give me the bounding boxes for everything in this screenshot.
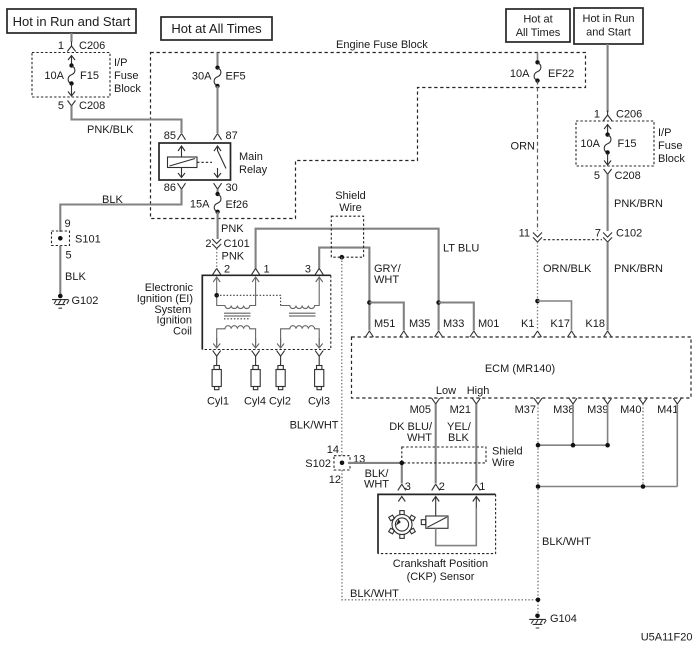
wire ORN/BLK from C102 to ECM pin K1 bbox=[538, 242, 592, 331]
I/P fuse block dashed box (right) bbox=[576, 121, 685, 166]
fuse EF22 (10A) bbox=[510, 53, 574, 83]
wire ORN from EF22 to C102 pin 11 bbox=[511, 81, 538, 231]
svg-text:PNK/BRN: PNK/BRN bbox=[614, 198, 663, 210]
svg-text:3: 3 bbox=[405, 481, 411, 493]
wire PNK/BLK from C208 to relay pin 85 bbox=[72, 106, 182, 136]
svg-text:1: 1 bbox=[479, 481, 485, 493]
wire branch to ECM pin K17 bbox=[535, 299, 540, 304]
svg-text:ECM (MR140): ECM (MR140) bbox=[485, 363, 555, 375]
relay pin 85 fork bbox=[164, 130, 186, 142]
svg-text:10A: 10A bbox=[510, 68, 530, 80]
ECM pin M51 bbox=[365, 318, 395, 337]
svg-text:M33: M33 bbox=[443, 318, 464, 330]
wire from M41 to junction bbox=[676, 404, 678, 487]
svg-text:Wire: Wire bbox=[339, 202, 362, 214]
svg-text:Hot at All Times: Hot at All Times bbox=[171, 21, 262, 36]
connector C101 bbox=[205, 238, 249, 250]
svg-text:30: 30 bbox=[226, 182, 238, 194]
CKP pickup sensor element bbox=[421, 508, 476, 546]
svg-text:EF5: EF5 bbox=[226, 71, 246, 83]
svg-text:BLK: BLK bbox=[65, 271, 86, 283]
I/P fuse block dashed box (left) bbox=[32, 53, 141, 98]
svg-text:Shield: Shield bbox=[492, 446, 523, 458]
svg-text:Coil: Coil bbox=[173, 326, 192, 338]
svg-text:12: 12 bbox=[329, 474, 341, 486]
spark plug Cyl3 bbox=[308, 351, 330, 408]
header box: Hot in Run and Start (right) bbox=[574, 8, 643, 44]
svg-text:M37: M37 bbox=[515, 404, 536, 416]
svg-text:C101: C101 bbox=[224, 238, 250, 250]
svg-text:Low: Low bbox=[436, 385, 456, 397]
splice S102 bbox=[305, 444, 365, 486]
wire PNK from Ef26 to C101 bbox=[218, 212, 245, 239]
svg-text:M05: M05 bbox=[410, 404, 431, 416]
ECM pin M05 bbox=[410, 398, 440, 416]
wire GRY/WHT from coil pin 3 to ECM pins M51 / M35 bbox=[319, 248, 401, 331]
svg-text:15A: 15A bbox=[190, 199, 210, 211]
fuse Ef26 (15A) bbox=[190, 192, 248, 214]
svg-text:BLK/WHT: BLK/WHT bbox=[290, 420, 339, 432]
junction run M37-M41 bbox=[536, 484, 678, 489]
CKP sensor box bbox=[378, 494, 496, 583]
junction at ground drop bbox=[536, 598, 541, 603]
CKP pin 1 fork bbox=[472, 481, 485, 493]
coil primary winding (left transformer) bbox=[217, 292, 256, 309]
relay pin 86 fork bbox=[164, 182, 186, 194]
wire EF5 feed from fuse block top bbox=[216, 53, 218, 66]
svg-text:M40: M40 bbox=[620, 404, 641, 416]
svg-text:(CKP) Sensor: (CKP) Sensor bbox=[407, 571, 475, 583]
ECM pin M01 bbox=[470, 318, 500, 337]
ground G102 bbox=[52, 294, 98, 309]
svg-text:M41: M41 bbox=[657, 404, 678, 416]
connector C208 (left) bbox=[58, 100, 105, 112]
svg-text:5: 5 bbox=[594, 170, 600, 182]
svg-text:S101: S101 bbox=[75, 234, 101, 246]
svg-text:PNK/BLK: PNK/BLK bbox=[87, 124, 134, 136]
header box: Hot in Run and Start (left) bbox=[7, 9, 136, 33]
svg-text:C206: C206 bbox=[79, 40, 105, 52]
shield drain junction bbox=[340, 255, 345, 260]
svg-text:BLK/WHT: BLK/WHT bbox=[542, 536, 591, 548]
wire from M38 to junction bbox=[572, 404, 574, 445]
header box: Hot at All Times (left) bbox=[161, 17, 272, 40]
junction run M37-M39 bbox=[536, 443, 610, 448]
svg-text:2: 2 bbox=[205, 238, 211, 250]
wire DK BLU/WHT from M05 to CKP pin 2 bbox=[389, 404, 435, 484]
spark plug Cyl2 bbox=[269, 351, 291, 408]
wire PNK/BRN from C102 to ECM pin K18 bbox=[608, 242, 663, 331]
svg-text:G102: G102 bbox=[72, 295, 99, 307]
svg-text:Hot in Run: Hot in Run bbox=[583, 13, 635, 25]
fuse F15 (right, 10A) bbox=[580, 125, 636, 166]
svg-text:C102: C102 bbox=[616, 228, 642, 240]
connector C208 (right) bbox=[594, 169, 641, 182]
svg-text:BLK: BLK bbox=[448, 432, 469, 444]
coil core (right) bbox=[289, 313, 316, 316]
ECM pin M21 bbox=[450, 398, 481, 416]
wire YEL/BLK from M21 to CKP pin 1 bbox=[447, 404, 476, 484]
ECM pin K18 bbox=[585, 318, 611, 337]
coil pin 1 fork bbox=[252, 264, 270, 276]
svg-text:BLK/WHT: BLK/WHT bbox=[350, 588, 399, 600]
svg-text:Crankshaft Position: Crankshaft Position bbox=[393, 558, 488, 570]
CKP reluctor gear bbox=[389, 511, 416, 539]
svg-text:5: 5 bbox=[66, 250, 72, 262]
wire from EF5 to relay pin 87 bbox=[216, 86, 218, 133]
svg-text:EF22: EF22 bbox=[548, 68, 574, 80]
shield wire dashed box (at coil) bbox=[331, 190, 365, 257]
svg-text:Hot in Run and Start: Hot in Run and Start bbox=[13, 14, 131, 29]
svg-text:C206: C206 bbox=[616, 109, 642, 121]
svg-text:High: High bbox=[467, 385, 490, 397]
svg-text:Relay: Relay bbox=[239, 164, 268, 176]
wire BLK/WHT from S102 to CKP pin 3 bbox=[348, 461, 404, 491]
coil internal arrows (bottom outputs) bbox=[213, 338, 220, 348]
svg-text:and Start: and Start bbox=[586, 27, 631, 39]
svg-text:WHT: WHT bbox=[407, 432, 432, 444]
ECM pin M35 bbox=[400, 318, 431, 337]
ECM pin M37 bbox=[515, 398, 542, 416]
svg-text:11: 11 bbox=[519, 228, 530, 240]
svg-text:Block: Block bbox=[114, 83, 141, 95]
svg-text:10A: 10A bbox=[580, 138, 600, 150]
ECM pin M39 bbox=[587, 398, 612, 416]
ECM pin M38 bbox=[553, 398, 577, 416]
svg-text:M39: M39 bbox=[587, 404, 608, 416]
svg-text:Ef26: Ef26 bbox=[226, 199, 249, 211]
CKP pin 2 fork bbox=[432, 481, 445, 493]
shield wire dashed box (at CKP) bbox=[402, 446, 523, 470]
svg-text:1: 1 bbox=[58, 40, 64, 52]
ECM box (MR140) bbox=[352, 337, 692, 398]
fuse EF5 (30A) bbox=[192, 65, 246, 88]
wire BLK/WHT from S102 to G104 bbox=[342, 470, 536, 600]
svg-text:1: 1 bbox=[594, 109, 600, 121]
svg-text:86: 86 bbox=[164, 182, 176, 194]
CKP pin 3 fork bbox=[398, 481, 411, 493]
svg-text:M51: M51 bbox=[374, 318, 395, 330]
svg-text:PNK: PNK bbox=[222, 251, 245, 263]
svg-text:M35: M35 bbox=[409, 318, 430, 330]
svg-text:K18: K18 bbox=[585, 318, 605, 330]
wire BLK from S101 to G102 bbox=[60, 246, 86, 296]
svg-text:Wire: Wire bbox=[492, 457, 515, 469]
coil secondary winding (right transformer) bbox=[281, 326, 320, 345]
ECM pin M41 bbox=[657, 398, 681, 416]
svg-text:PNK: PNK bbox=[221, 223, 244, 235]
wire from right header box to C206 bbox=[607, 44, 609, 112]
svg-text:7: 7 bbox=[595, 228, 601, 240]
fuse F15 (left, 10A) bbox=[44, 56, 99, 97]
wire BLK/WHT from M37 shield drain to ground run bbox=[537, 404, 539, 615]
svg-text:WHT: WHT bbox=[364, 479, 389, 491]
svg-text:M01: M01 bbox=[478, 318, 499, 330]
svg-text:All Times: All Times bbox=[516, 27, 561, 39]
svg-text:Engine Fuse Block: Engine Fuse Block bbox=[336, 39, 428, 51]
svg-text:C208: C208 bbox=[79, 100, 105, 112]
connector C102 dashed link bbox=[544, 239, 603, 241]
svg-text:Main: Main bbox=[239, 151, 263, 163]
ECM pin M40 bbox=[620, 398, 647, 416]
ECM pin K1 bbox=[521, 318, 541, 337]
svg-text:Fuse: Fuse bbox=[114, 70, 138, 82]
spark plug Cyl4 bbox=[244, 351, 266, 408]
svg-text:Shield: Shield bbox=[335, 190, 366, 202]
svg-text:C208: C208 bbox=[615, 170, 641, 182]
svg-text:LT BLU: LT BLU bbox=[443, 243, 479, 255]
electronic ignition coil box bbox=[137, 275, 331, 349]
svg-text:85: 85 bbox=[164, 130, 176, 142]
ground G104 bbox=[529, 613, 577, 628]
svg-text:87: 87 bbox=[226, 130, 238, 142]
coil pin 2 fork bbox=[213, 264, 230, 276]
wire BLK from relay pin 86 to S101 bbox=[60, 189, 181, 232]
svg-text:M38: M38 bbox=[553, 404, 574, 416]
svg-text:30A: 30A bbox=[192, 71, 212, 83]
svg-text:10A: 10A bbox=[44, 70, 64, 82]
ECM pin K17 bbox=[550, 318, 575, 337]
connector C206 (left) bbox=[58, 40, 105, 52]
coil internal arrows (top pins) bbox=[213, 277, 220, 292]
connector C102 pin 11 bbox=[519, 228, 542, 243]
svg-text:Cyl2: Cyl2 bbox=[269, 396, 291, 408]
coil jumper (dotted) to right primary bbox=[214, 293, 219, 298]
coil secondary winding (left transformer) bbox=[217, 326, 256, 345]
wire LT BLU from coil pin 1 to ECM pins M33 / M01 bbox=[256, 229, 480, 331]
svg-text:3: 3 bbox=[305, 264, 311, 276]
svg-text:9: 9 bbox=[65, 218, 71, 230]
svg-text:F15: F15 bbox=[618, 138, 637, 150]
coil core (left) bbox=[224, 313, 251, 316]
ECM pin M33 bbox=[435, 318, 465, 337]
engine fuse block dashed outline bbox=[151, 39, 586, 219]
svg-text:2: 2 bbox=[224, 264, 230, 276]
svg-text:I/P: I/P bbox=[658, 127, 671, 139]
svg-text:I/P: I/P bbox=[114, 57, 127, 69]
shield drain wire BLK/WHT down to S102 bbox=[290, 257, 342, 455]
svg-text:BLK: BLK bbox=[102, 194, 123, 206]
svg-text:PNK/BRN: PNK/BRN bbox=[614, 263, 663, 275]
relay pin 30 fork bbox=[214, 182, 238, 194]
spark plug Cyl1 bbox=[207, 351, 229, 408]
svg-text:G104: G104 bbox=[550, 613, 577, 625]
relay pin 87 fork bbox=[214, 130, 238, 142]
svg-text:K1: K1 bbox=[521, 318, 534, 330]
splice S101 bbox=[52, 218, 101, 246]
svg-text:1: 1 bbox=[264, 264, 270, 276]
svg-text:Cyl1: Cyl1 bbox=[207, 396, 229, 408]
coil pin 3 fork bbox=[305, 264, 323, 276]
svg-text:F15: F15 bbox=[80, 70, 99, 82]
svg-text:Cyl4: Cyl4 bbox=[244, 396, 266, 408]
svg-text:2: 2 bbox=[439, 481, 445, 493]
svg-text:M21: M21 bbox=[450, 404, 471, 416]
svg-text:Block: Block bbox=[658, 153, 685, 165]
wire from pin 30 to fuse Ef26 bbox=[217, 189, 219, 193]
svg-text:WHT: WHT bbox=[374, 274, 399, 286]
wire PNK from C101 to coil pin 2 bbox=[217, 249, 245, 269]
svg-text:S102: S102 bbox=[305, 458, 331, 470]
svg-text:K17: K17 bbox=[550, 318, 570, 330]
svg-text:ORN: ORN bbox=[511, 141, 536, 153]
coil primary winding (right transformer) bbox=[281, 292, 320, 309]
svg-text:Cyl3: Cyl3 bbox=[308, 396, 330, 408]
wire from left header box to C206 bbox=[70, 33, 72, 42]
connector C102 pin 7 bbox=[595, 228, 642, 243]
svg-text:5: 5 bbox=[58, 100, 64, 112]
svg-text:14: 14 bbox=[327, 444, 339, 456]
connector C206 (right) bbox=[594, 109, 642, 121]
CKP internal arrows bbox=[398, 497, 405, 502]
svg-text:Fuse: Fuse bbox=[658, 140, 682, 152]
svg-text:U5A11F20: U5A11F20 bbox=[641, 632, 693, 644]
wire from M39 to junction bbox=[607, 404, 609, 445]
svg-text:ORN/BLK: ORN/BLK bbox=[543, 263, 592, 275]
wire from M40 to junction bbox=[642, 404, 644, 487]
relay: Main Relay bbox=[159, 143, 268, 180]
svg-text:Hot at: Hot at bbox=[523, 14, 552, 26]
header box: Hot at All Times (right) bbox=[506, 9, 570, 42]
wire PNK/BRN from C208 to C102 pin 7 bbox=[608, 174, 663, 231]
